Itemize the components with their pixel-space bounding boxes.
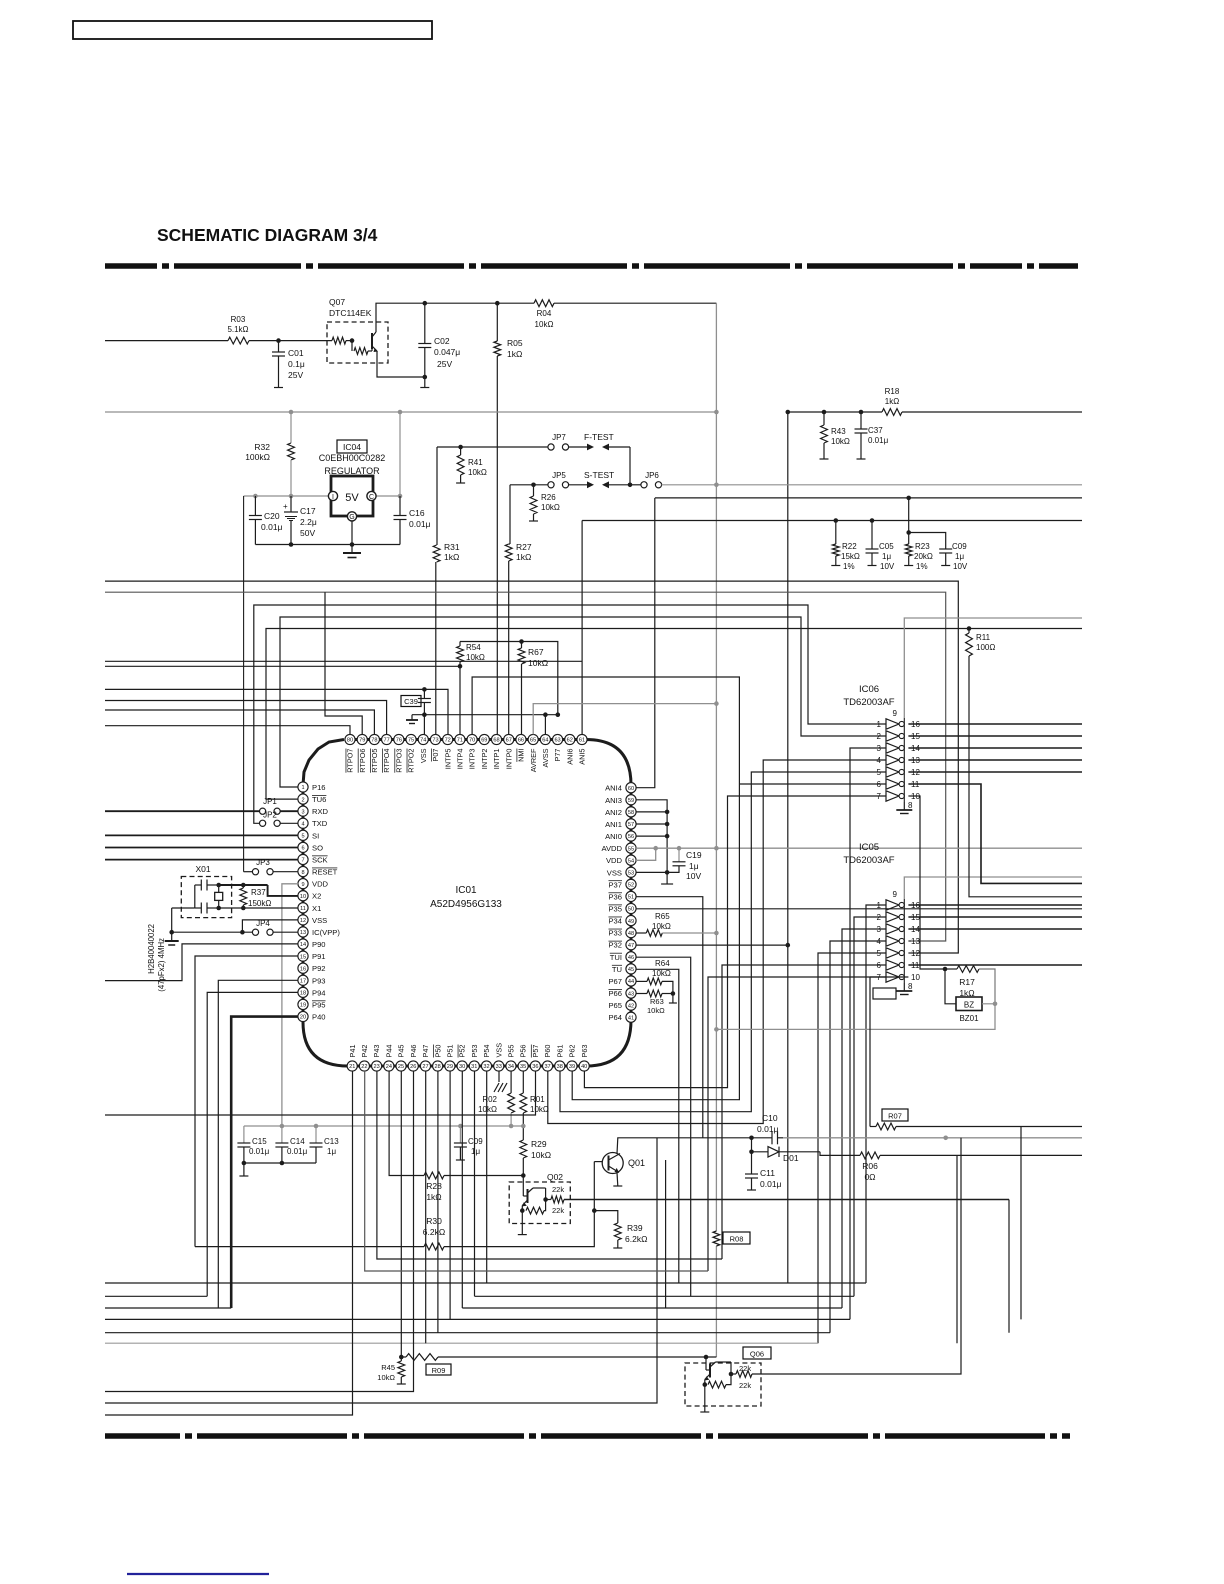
svg-text:63: 63	[554, 738, 560, 744]
svg-text:P77: P77	[553, 749, 562, 762]
wire IC05 out15	[908, 916, 1082, 918]
svg-text:47: 47	[628, 943, 634, 949]
wire JP3 to pin8	[273, 871, 298, 873]
wire D01 to R06	[820, 1152, 860, 1156]
wire IC05 in3	[842, 929, 886, 1308]
svg-text:INTP4: INTP4	[455, 749, 464, 770]
svg-text:P95: P95	[312, 1000, 326, 1009]
node AVREF gray tap	[714, 701, 719, 706]
svg-text:10kΩ: 10kΩ	[652, 969, 671, 978]
wire P94 margin line	[105, 1295, 207, 1297]
resistor R67	[521, 642, 523, 649]
capacitor C39	[423, 689, 425, 698]
svg-text:25V: 25V	[437, 359, 452, 369]
jumper JP7	[548, 444, 554, 450]
node R26 tap	[531, 483, 536, 488]
wire P52 drop	[461, 1071, 463, 1308]
node R05 top	[495, 301, 500, 306]
svg-text:100kΩ: 100kΩ	[245, 452, 270, 462]
svg-text:INTP5: INTP5	[443, 749, 452, 770]
svg-text:71: 71	[457, 738, 463, 744]
transistor Q07 box	[327, 322, 388, 363]
svg-text:P53: P53	[470, 1045, 479, 1058]
wire SI net	[105, 834, 298, 836]
svg-text:VSS: VSS	[419, 748, 428, 763]
node R37 bottom	[241, 906, 246, 911]
svg-text:JP2: JP2	[263, 811, 277, 820]
svg-text:1μ: 1μ	[689, 861, 699, 871]
node R23 split	[906, 530, 911, 535]
svg-text:P92: P92	[312, 964, 326, 973]
wire bus1308 left	[105, 1307, 231, 1309]
svg-text:10kΩ: 10kΩ	[466, 653, 485, 662]
svg-text:RTPO3: RTPO3	[394, 749, 403, 773]
wire P36 net	[636, 897, 703, 1138]
node JP6 VDD tap	[714, 483, 719, 488]
wire IC06 out15	[908, 735, 1082, 737]
wire IC05 out16	[908, 904, 1082, 906]
svg-text:22k: 22k	[552, 1185, 564, 1194]
wire supply rail right R18 segment	[788, 411, 882, 413]
svg-text:P56: P56	[519, 1045, 528, 1058]
wire P32 net	[636, 944, 788, 946]
node R11 top	[967, 626, 972, 631]
node VDD9 rail join	[280, 1124, 285, 1129]
wire VDD pin9 lead	[282, 884, 298, 1126]
svg-text:66: 66	[518, 738, 524, 744]
svg-text:TU: TU	[612, 965, 622, 974]
node R22 tap	[834, 518, 839, 523]
svg-text:VSS: VSS	[607, 868, 622, 877]
svg-text:41: 41	[628, 1015, 634, 1021]
transistor Q02 box	[509, 1182, 570, 1224]
svg-text:R18: R18	[885, 387, 900, 396]
svg-text:51: 51	[628, 895, 634, 901]
node AVSS tap	[543, 712, 548, 717]
wire bus661	[105, 660, 582, 662]
svg-text:R01: R01	[530, 1095, 545, 1104]
resistor R09	[406, 1354, 438, 1361]
wire X2 net	[219, 884, 268, 886]
node R39 top	[592, 1208, 597, 1213]
svg-text:RTPO5: RTPO5	[370, 749, 379, 773]
ground X01	[171, 932, 173, 941]
wire AVDD gray net	[636, 847, 1082, 849]
svg-text:59: 59	[628, 798, 634, 804]
svg-text:P41: P41	[348, 1045, 357, 1058]
node C16 rail tap	[398, 410, 403, 415]
svg-text:10kΩ: 10kΩ	[468, 468, 487, 477]
resistor R32	[288, 443, 295, 460]
wire VSS12 lead	[242, 920, 298, 932]
top separator bar	[105, 263, 1078, 269]
svg-text:24: 24	[386, 1064, 392, 1070]
node C17 gnd	[289, 542, 294, 547]
svg-text:27: 27	[422, 1064, 428, 1070]
wire bus666 to R54	[105, 665, 460, 667]
svg-text:50V: 50V	[300, 528, 315, 538]
svg-text:C09: C09	[468, 1137, 483, 1146]
node R54 bottom	[458, 664, 463, 669]
wire cap gnd stub	[243, 1163, 245, 1176]
wire Q07 collector	[376, 303, 534, 332]
svg-text:P90: P90	[312, 940, 326, 949]
wire R05 to pin68	[496, 356, 498, 734]
wire Q01 base	[594, 1161, 602, 1163]
jumper JP3	[252, 869, 258, 875]
wire P94 net	[207, 992, 298, 1296]
svg-text:10kΩ: 10kΩ	[377, 1373, 395, 1382]
wire IC05 pin9 gray	[904, 877, 1082, 899]
svg-text:C15: C15	[252, 1137, 267, 1146]
wire IC06 out11	[908, 784, 1082, 883]
svg-text:RESET: RESET	[312, 868, 338, 877]
svg-text:P47: P47	[421, 1045, 430, 1058]
node R64R63 join	[671, 991, 676, 996]
IC U1 A52D4956G133 body	[303, 740, 631, 1067]
svg-text:P62: P62	[568, 1045, 577, 1058]
wire Q01 emitter	[616, 1173, 619, 1187]
wire P54 drop	[486, 1071, 488, 1283]
capacitor C09b	[939, 548, 952, 550]
svg-text:TD62003AF: TD62003AF	[843, 697, 894, 708]
svg-text:46: 46	[628, 955, 634, 961]
svg-text:54: 54	[628, 858, 634, 864]
node P77col tap	[556, 712, 561, 717]
wire ANI bus	[636, 800, 667, 884]
wire F-TEST to S-TEST	[629, 447, 631, 485]
wire bus725 pin80	[105, 726, 350, 735]
svg-text:P35: P35	[608, 905, 622, 914]
svg-text:26: 26	[410, 1064, 416, 1070]
wire VSS74 line	[412, 714, 558, 716]
svg-text:13: 13	[911, 937, 920, 946]
svg-text:1%: 1%	[843, 562, 855, 571]
svg-text:TXD: TXD	[312, 819, 328, 828]
svg-text:10kΩ: 10kΩ	[478, 1105, 497, 1114]
svg-text:9: 9	[301, 882, 304, 888]
wire IC05 in1	[866, 905, 886, 1283]
wire JP3 riser	[243, 496, 245, 872]
resistor R06	[860, 1152, 880, 1159]
buzzer BZ01	[956, 997, 982, 1011]
svg-text:57: 57	[628, 822, 634, 828]
wire R54 to pin71	[459, 666, 461, 734]
resistor R22	[835, 521, 837, 545]
wire IC06 in6	[739, 783, 886, 785]
node C16 top	[398, 494, 403, 499]
svg-text:TU6: TU6	[312, 795, 326, 804]
wire ANI4 net	[636, 498, 655, 788]
wire VDD54 lead	[636, 848, 656, 860]
wire IC06 in7	[584, 796, 886, 1088]
svg-text:22k: 22k	[739, 1381, 751, 1390]
IC04 label box	[337, 440, 367, 453]
wire Q07 emitter	[377, 351, 425, 377]
wire Q06 output	[752, 1138, 961, 1374]
svg-text:11: 11	[300, 906, 306, 912]
svg-text:RTPO2: RTPO2	[407, 749, 416, 773]
node R23 net tap	[906, 496, 911, 501]
svg-text:P94: P94	[312, 988, 326, 997]
resistor R45	[400, 1357, 402, 1361]
svg-text:ANI6: ANI6	[565, 749, 574, 765]
svg-text:21: 21	[349, 1064, 355, 1070]
svg-text:+: +	[283, 502, 288, 511]
svg-text:43: 43	[628, 991, 634, 997]
node C20 tap	[253, 494, 258, 499]
resistor R01	[522, 1071, 524, 1093]
wire IC06 in3	[850, 748, 886, 1319]
svg-text:31: 31	[471, 1064, 477, 1070]
transistor Q02 internals	[522, 1176, 524, 1197]
svg-text:61: 61	[579, 738, 585, 744]
svg-text:10V: 10V	[880, 562, 895, 571]
svg-text:R31: R31	[444, 542, 460, 552]
svg-text:P65: P65	[608, 1001, 622, 1010]
svg-text:74: 74	[420, 738, 426, 744]
svg-text:H2B40040022: H2B40040022	[147, 924, 156, 974]
resistor R03	[228, 337, 249, 344]
svg-text:0Ω: 0Ω	[864, 1172, 875, 1182]
svg-text:3: 3	[301, 809, 304, 815]
node R32 bottom	[289, 494, 294, 499]
ground C39	[411, 715, 413, 720]
svg-text:48: 48	[628, 931, 634, 937]
node C09 tap	[458, 1124, 463, 1129]
svg-text:C02: C02	[434, 336, 450, 346]
wire TXD net	[254, 605, 886, 823]
svg-text:25V: 25V	[288, 370, 303, 380]
wire Q02 output	[546, 1199, 551, 1201]
svg-text:39: 39	[569, 1064, 575, 1070]
wire IC06 out16	[908, 723, 1082, 725]
svg-text:R41: R41	[468, 458, 483, 467]
svg-text:VDD: VDD	[312, 880, 329, 889]
capacitor C09	[459, 1126, 461, 1143]
svg-text:0.1μ: 0.1μ	[288, 359, 305, 369]
svg-text:R17: R17	[959, 977, 975, 987]
node D01 left	[749, 1150, 754, 1155]
wire bus689 C39 pin72	[105, 689, 448, 734]
node R18 riser top	[786, 410, 791, 415]
wire F-TEST arrows	[569, 446, 588, 448]
svg-text:Q01: Q01	[628, 1158, 645, 1168]
svg-text:1kΩ: 1kΩ	[516, 552, 531, 562]
node BZ VDD tap	[714, 1027, 719, 1032]
wire P91 net	[195, 956, 298, 1247]
svg-text:C19: C19	[686, 850, 702, 860]
svg-text:P43: P43	[372, 1045, 381, 1058]
svg-text:R43: R43	[831, 427, 846, 436]
svg-text:RXD: RXD	[312, 807, 329, 816]
wire TU6 net	[266, 629, 1082, 800]
svg-text:P55: P55	[507, 1045, 516, 1058]
svg-text:ANI3: ANI3	[605, 796, 622, 805]
svg-text:10: 10	[911, 973, 920, 982]
node Q02 base	[521, 1173, 526, 1178]
IC05 pin8 tab	[873, 988, 896, 999]
wire R30 to Q01	[444, 1211, 594, 1247]
node C05 tap	[870, 518, 875, 523]
svg-text:49: 49	[628, 919, 634, 925]
resistor R29	[520, 1140, 527, 1158]
wire bus1308 right	[462, 1307, 842, 1309]
svg-text:45: 45	[628, 967, 634, 973]
svg-text:INTP0: INTP0	[504, 749, 513, 770]
wire S-TEST line	[510, 484, 549, 486]
svg-text:C: C	[369, 494, 374, 501]
svg-text:4: 4	[301, 821, 304, 827]
svg-text:22k: 22k	[739, 1364, 751, 1373]
IC04 regulator body	[331, 476, 373, 516]
svg-text:P34: P34	[608, 917, 622, 926]
svg-text:C13: C13	[324, 1137, 339, 1146]
svg-text:P64: P64	[608, 1013, 622, 1022]
capacitor C02	[424, 303, 426, 343]
wire X01 cap gnd	[172, 907, 195, 909]
svg-text:R63: R63	[650, 997, 664, 1006]
svg-text:100Ω: 100Ω	[976, 643, 995, 652]
svg-text:10kΩ: 10kΩ	[531, 1150, 551, 1160]
svg-text:(47pFx2) 4MHz: (47pFx2) 4MHz	[157, 938, 166, 992]
svg-text:65: 65	[530, 738, 536, 744]
wire SO net	[105, 847, 298, 849]
wire P16 net	[280, 617, 886, 787]
svg-text:ANI5: ANI5	[578, 749, 587, 765]
wire JP1 to pin3	[280, 810, 298, 812]
svg-text:G: G	[349, 514, 354, 521]
svg-text:19: 19	[300, 1003, 306, 1009]
wire pin70 INTP3 net	[472, 677, 739, 1100]
svg-text:R09: R09	[432, 1366, 446, 1375]
resistor R64	[636, 980, 647, 982]
wire R04 to VDD rail	[554, 302, 716, 304]
svg-text:BZ: BZ	[964, 1001, 974, 1010]
node C37 tap	[859, 410, 864, 415]
node C10 left	[749, 1136, 754, 1141]
wire P93 net	[218, 980, 298, 1308]
wire R67 to pin66	[521, 664, 523, 734]
svg-text:2: 2	[877, 732, 882, 741]
svg-text:10kΩ: 10kΩ	[530, 1105, 549, 1114]
svg-text:10kΩ: 10kΩ	[831, 437, 850, 446]
ground VSS33 chassis	[498, 1071, 500, 1082]
wire IC05 in5	[818, 953, 886, 1343]
svg-text:33: 33	[496, 1064, 502, 1070]
svg-text:C01: C01	[288, 348, 304, 358]
svg-text:INTP2: INTP2	[480, 749, 489, 770]
wire aux riser B	[665, 1160, 667, 1308]
svg-text:5V: 5V	[345, 492, 359, 504]
transistor Q01	[602, 1153, 623, 1174]
svg-text:28: 28	[435, 1064, 441, 1070]
svg-text:1%: 1%	[916, 562, 928, 571]
node R43 tap	[822, 410, 827, 415]
svg-text:P42: P42	[360, 1045, 369, 1058]
svg-text:R04: R04	[537, 309, 552, 318]
svg-text:7: 7	[301, 858, 304, 864]
wire R17 to BZ right	[979, 969, 995, 1004]
svg-text:25: 25	[398, 1064, 404, 1070]
svg-text:1kΩ: 1kΩ	[885, 397, 899, 406]
svg-text:9: 9	[893, 890, 898, 899]
wire P35 net	[636, 908, 1082, 910]
wire IC05 out11	[908, 964, 1082, 966]
jumper JP6	[630, 484, 641, 486]
wire regulator ground rail	[255, 544, 400, 546]
svg-text:R06: R06	[862, 1161, 878, 1171]
capacitor C01	[278, 341, 280, 352]
node S-TEST junction	[628, 483, 633, 488]
svg-text:IC01: IC01	[455, 885, 477, 896]
wire IC05 in4	[830, 941, 886, 1333]
wire G lead	[351, 521, 353, 545]
svg-text:8: 8	[301, 870, 304, 876]
svg-text:P45: P45	[397, 1045, 406, 1058]
svg-text:13: 13	[300, 930, 306, 936]
resistor R65	[636, 932, 646, 934]
svg-text:42: 42	[628, 1003, 634, 1009]
svg-text:AVDD: AVDD	[601, 844, 622, 853]
svg-text:S-TEST: S-TEST	[584, 470, 614, 480]
wire R32 drop	[290, 412, 292, 443]
svg-text:R05: R05	[507, 338, 523, 348]
svg-text:R67: R67	[528, 647, 544, 657]
svg-text:R64: R64	[655, 959, 670, 968]
svg-text:Q06: Q06	[750, 1350, 764, 1359]
wire net582 riser to pin61	[581, 521, 583, 735]
svg-text:40: 40	[581, 1064, 587, 1070]
wire C39 to pin74	[423, 715, 425, 735]
svg-text:68: 68	[493, 738, 499, 744]
wire R54R67 top line	[460, 642, 558, 715]
svg-text:10V: 10V	[953, 562, 968, 571]
svg-text:P67: P67	[608, 977, 622, 986]
resistor R28	[424, 1172, 444, 1179]
svg-text:JP6: JP6	[645, 471, 659, 480]
wire IC05 in6	[722, 965, 886, 1259]
svg-text:22k: 22k	[552, 1206, 564, 1215]
jumper JP4	[252, 929, 258, 935]
svg-text:52: 52	[628, 883, 634, 889]
wire R06 out	[880, 1154, 1082, 1156]
svg-text:0.01μ: 0.01μ	[409, 519, 431, 529]
wire X01 left join	[194, 885, 196, 908]
wire IC06 in5	[560, 772, 886, 1112]
diode D01	[752, 1151, 769, 1153]
wire X1 net	[219, 907, 298, 909]
wire RXD net	[105, 810, 260, 812]
svg-text:IC05: IC05	[859, 842, 879, 853]
wire R18 riser	[787, 412, 789, 1283]
wire F-TEST line	[437, 446, 549, 448]
wire IC05 out14	[908, 928, 1082, 930]
svg-text:10kΩ: 10kΩ	[535, 320, 554, 329]
wire bus1332	[105, 1332, 830, 1334]
wire Q02 emitter gnd	[521, 1211, 523, 1235]
wire R01 to R29	[522, 1113, 524, 1140]
svg-text:32: 32	[483, 1064, 489, 1070]
svg-text:80: 80	[347, 738, 353, 744]
svg-text:75: 75	[408, 738, 414, 744]
wire X01 gnd drop	[171, 908, 173, 932]
wire IC05 out12	[908, 952, 911, 954]
svg-text:P32: P32	[608, 941, 622, 950]
svg-text:C05: C05	[879, 542, 894, 551]
svg-text:77: 77	[384, 738, 390, 744]
wire P43 net	[377, 1071, 722, 1259]
